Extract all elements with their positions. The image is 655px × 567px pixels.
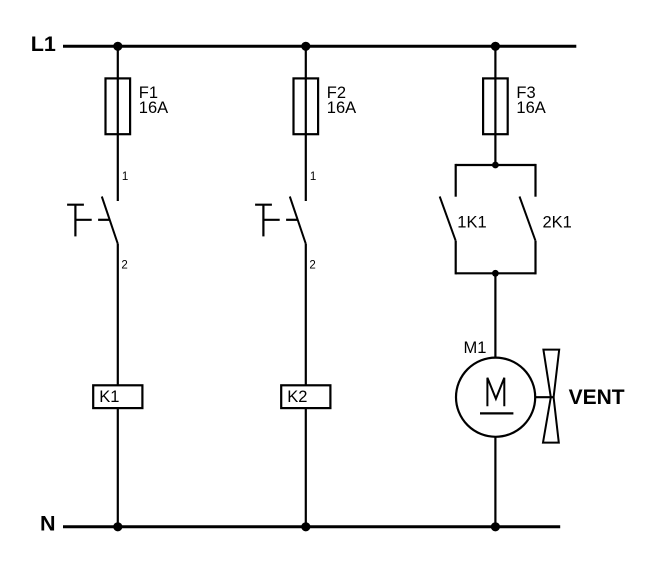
svg-text:VENT: VENT	[569, 386, 625, 409]
fan symbol upper blade	[543, 350, 559, 398]
svg-text:L1: L1	[31, 32, 56, 56]
pushbutton S2 contact blade	[290, 197, 306, 244]
wire branch2: switch pin 2 to coil K2	[305, 244, 307, 385]
motor M1 underline	[480, 412, 513, 414]
wire: motor shaft link to fan	[535, 396, 551, 398]
svg-text:N: N	[40, 512, 56, 536]
junction node: top of parallel contacts	[492, 162, 499, 169]
wire branch1: coil K1 to N rail	[117, 408, 119, 527]
wire branch2: L1 rail through F2 to switch pin 1	[305, 46, 307, 201]
pushbutton S1 contact blade	[102, 197, 118, 244]
wire branch3: motor M1 to N rail	[494, 437, 496, 527]
wire: left branch upper lead	[455, 164, 457, 197]
svg-text:1: 1	[122, 171, 128, 183]
svg-text:2K1: 2K1	[543, 214, 572, 232]
svg-text:M1: M1	[464, 339, 487, 357]
svg-text:1: 1	[310, 171, 316, 183]
wire branch1: L1 rail through F1 to switch pin 1	[117, 46, 119, 201]
pushbutton S1 actuator	[67, 205, 110, 237]
wire: right branch lower lead	[534, 241, 536, 275]
svg-text:K2: K2	[287, 388, 307, 406]
svg-text:16A: 16A	[327, 99, 356, 117]
wire branch2: coil K2 to N rail	[305, 408, 307, 527]
junction node L1 / branch 1	[113, 42, 122, 51]
svg-text:2: 2	[121, 260, 127, 272]
svg-text:2: 2	[309, 260, 315, 272]
wire: bottom bar of parallel contacts	[456, 272, 536, 274]
svg-text:16A: 16A	[139, 99, 168, 117]
fuse F3	[483, 78, 508, 134]
junction node N / branch 2	[301, 522, 310, 531]
junction node L1 / branch 2	[301, 42, 310, 51]
junction node N / branch 3	[491, 522, 500, 531]
pushbutton S2 actuator	[255, 205, 298, 237]
svg-text:1K1: 1K1	[457, 214, 486, 232]
fuse F2	[294, 78, 319, 134]
contact 2K1 blade	[520, 197, 536, 241]
coil K2	[281, 385, 330, 408]
net L1 rail wire	[63, 45, 576, 48]
wire branch3: L1 rail through F3 to parallel contacts	[494, 46, 496, 165]
junction node N / branch 1	[113, 522, 122, 531]
svg-text:K1: K1	[99, 388, 119, 406]
motor M1 body circle	[456, 358, 535, 437]
coil K1	[93, 385, 142, 408]
junction node L1 / branch 3	[491, 42, 500, 51]
wire: left branch lower lead	[455, 241, 457, 275]
contact 1K1 blade	[440, 197, 456, 241]
fan symbol lower blade	[543, 397, 559, 442]
svg-text:16A: 16A	[516, 99, 545, 117]
wire branch1: switch pin 2 to coil K1	[117, 244, 119, 385]
wire branch3: contacts to motor M1	[494, 273, 496, 358]
motor M1 letter M	[487, 378, 504, 407]
wire: right branch upper lead	[534, 164, 536, 197]
junction node: bottom of parallel contacts	[492, 270, 499, 277]
wire: top bar of parallel contacts	[456, 164, 536, 166]
fuse F1	[106, 78, 131, 134]
net N rail wire	[63, 525, 560, 528]
